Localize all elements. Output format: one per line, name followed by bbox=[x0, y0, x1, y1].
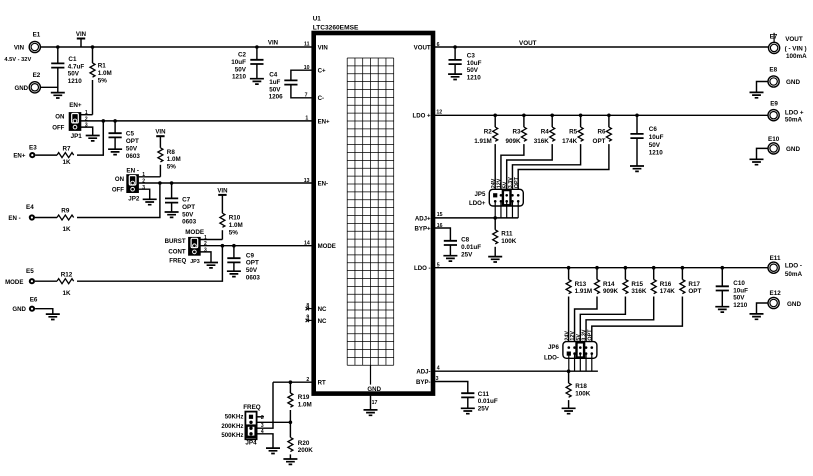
svg-text:GND: GND bbox=[787, 301, 801, 308]
ground JP2 bbox=[143, 199, 157, 204]
svg-text:MODE: MODE bbox=[5, 279, 23, 286]
svg-text:JP5: JP5 bbox=[475, 191, 486, 198]
terminal E1 VIN input bbox=[29, 41, 40, 52]
svg-text:OPT: OPT bbox=[688, 288, 701, 295]
svg-text:JP4: JP4 bbox=[245, 440, 257, 447]
svg-text:0603: 0603 bbox=[126, 153, 141, 160]
svg-text:50mA: 50mA bbox=[785, 117, 803, 124]
wire RT to JP4 pin3 bbox=[257, 382, 273, 428]
svg-text:R13: R13 bbox=[575, 281, 587, 288]
svg-text:10uF: 10uF bbox=[467, 60, 482, 67]
jumper JP2 EN- bbox=[126, 174, 139, 193]
svg-text:EN -: EN - bbox=[8, 215, 20, 222]
svg-text:0.01uF: 0.01uF bbox=[461, 244, 481, 251]
svg-text:OPT: OPT bbox=[514, 176, 520, 188]
svg-text:10uF: 10uF bbox=[733, 287, 748, 294]
ground E10 bbox=[750, 159, 764, 164]
terminal E5 MODE bbox=[29, 278, 35, 284]
wire LDO+ net bbox=[433, 114, 768, 116]
svg-text:500KHz: 500KHz bbox=[221, 432, 243, 439]
node LDO- junctions bbox=[567, 266, 571, 270]
resistor R15 316K bbox=[624, 268, 626, 280]
svg-text:C7: C7 bbox=[182, 197, 191, 204]
ground pin 17 of U1 bbox=[370, 395, 372, 410]
wire ADJ+ net bbox=[433, 217, 518, 219]
svg-text:1210: 1210 bbox=[733, 302, 748, 309]
svg-text:316K: 316K bbox=[631, 288, 647, 295]
svg-text:R3: R3 bbox=[512, 128, 521, 135]
svg-text:LDO-: LDO- bbox=[544, 354, 559, 361]
node VIN junctions bbox=[56, 45, 60, 49]
svg-text:1210: 1210 bbox=[232, 74, 247, 81]
node ADJ+ junction bbox=[493, 216, 497, 220]
svg-text:BURST: BURST bbox=[165, 238, 186, 245]
svg-text:E1: E1 bbox=[33, 32, 41, 39]
svg-text:R8: R8 bbox=[167, 149, 176, 156]
terminal E8 GND bbox=[768, 76, 779, 87]
ground E6 bbox=[46, 314, 60, 319]
svg-text:EN+: EN+ bbox=[69, 102, 82, 109]
svg-text:E6: E6 bbox=[30, 296, 38, 303]
svg-text:R10: R10 bbox=[229, 215, 241, 222]
svg-text:VOUT: VOUT bbox=[519, 40, 537, 47]
svg-text:4.7uF: 4.7uF bbox=[68, 63, 85, 70]
wire RT net bbox=[273, 381, 313, 383]
wire E8 to ground bbox=[757, 82, 769, 93]
svg-text:C10: C10 bbox=[733, 280, 745, 287]
svg-text:100mA: 100mA bbox=[786, 53, 807, 60]
capacitor C2 10uF bbox=[256, 47, 258, 60]
wire JP1 pin1 to R1 bbox=[81, 114, 93, 116]
svg-text:FREQ: FREQ bbox=[169, 257, 186, 264]
node ADJ- junction bbox=[567, 369, 571, 373]
svg-text:R14: R14 bbox=[603, 281, 615, 288]
svg-text:50V: 50V bbox=[246, 267, 258, 274]
svg-text:1210: 1210 bbox=[467, 75, 482, 82]
svg-text:C2: C2 bbox=[238, 52, 247, 59]
svg-text:LDO -: LDO - bbox=[785, 263, 802, 270]
capacitor C4 1uF flying bbox=[291, 70, 313, 80]
IC U1 LTC3260EMSE body bbox=[314, 33, 433, 394]
svg-text:5%: 5% bbox=[229, 229, 239, 236]
capacitor C1 4.7uF bbox=[57, 47, 59, 63]
svg-text:1210: 1210 bbox=[68, 78, 83, 85]
svg-text:CONT: CONT bbox=[168, 248, 186, 255]
svg-text:C1: C1 bbox=[68, 56, 77, 63]
svg-text:BYP+: BYP+ bbox=[415, 225, 432, 232]
terminal E3 EN+ bbox=[29, 152, 35, 158]
svg-text:200KHz: 200KHz bbox=[221, 423, 243, 430]
wire E10 to ground bbox=[757, 148, 769, 159]
wire E12 to ground bbox=[757, 303, 769, 314]
capacitor C3 10uF bbox=[454, 47, 456, 60]
svg-text:100K: 100K bbox=[575, 390, 591, 397]
ground below C5 bbox=[108, 149, 122, 154]
node EN+ junctions bbox=[102, 119, 106, 123]
wire JP3 pin1 to R10 bbox=[200, 239, 222, 241]
ground below R20 bbox=[283, 459, 297, 464]
svg-text:R2: R2 bbox=[484, 128, 493, 135]
svg-text:VOUT: VOUT bbox=[785, 36, 803, 43]
ground E8 bbox=[750, 92, 764, 97]
resistor R19 1.0M bbox=[289, 382, 291, 393]
node RT junction bbox=[289, 380, 293, 384]
svg-text:C4: C4 bbox=[269, 72, 278, 79]
resistor R10 1.0M bbox=[220, 213, 225, 227]
svg-text:10uF: 10uF bbox=[231, 59, 246, 66]
node LDO+ junctions bbox=[493, 114, 497, 118]
svg-text:50V: 50V bbox=[235, 66, 247, 73]
svg-text:OPT: OPT bbox=[126, 138, 139, 145]
svg-text:VIN: VIN bbox=[268, 40, 278, 47]
svg-text:E12: E12 bbox=[770, 290, 782, 297]
wire JP5 bottom pins to ADJ+ bus bbox=[494, 202, 496, 218]
ground below C8 bbox=[443, 256, 457, 261]
svg-text:R16: R16 bbox=[660, 281, 672, 288]
wire JP4 pin2 to R19-R20 bbox=[257, 421, 291, 423]
node VOUT junction bbox=[453, 45, 457, 49]
svg-text:1K: 1K bbox=[62, 159, 71, 166]
resistor R16 174K bbox=[653, 268, 655, 280]
svg-text:1.0M: 1.0M bbox=[167, 156, 181, 163]
wire JP2 pin1 to R8 bbox=[139, 176, 161, 178]
capacitor C5 OPT bbox=[114, 121, 116, 133]
svg-text:0603: 0603 bbox=[246, 275, 261, 282]
svg-text:174K: 174K bbox=[562, 138, 578, 145]
svg-text:R12: R12 bbox=[61, 271, 73, 278]
svg-text:LDO -: LDO - bbox=[414, 265, 431, 272]
svg-text:GND: GND bbox=[786, 146, 800, 153]
svg-text:R11: R11 bbox=[501, 231, 513, 238]
svg-text:1K: 1K bbox=[62, 226, 71, 233]
svg-text:1uF: 1uF bbox=[269, 79, 280, 86]
ground below R18 bbox=[562, 408, 576, 413]
resistor R18 100K bbox=[568, 371, 570, 383]
jumper JP3 MODE bbox=[188, 237, 201, 256]
svg-text:1206: 1206 bbox=[269, 94, 284, 101]
wire JP3 pin3 to ground bbox=[200, 252, 211, 263]
wire JP4 pin4 to ground bbox=[257, 434, 273, 448]
wire E6 to ground bbox=[35, 309, 53, 314]
node MODE junctions bbox=[221, 244, 225, 248]
svg-text:VOUT: VOUT bbox=[414, 44, 431, 51]
svg-text:C-: C- bbox=[318, 95, 324, 102]
ground E12 bbox=[750, 314, 764, 319]
ground below C9 bbox=[227, 271, 241, 276]
wire JP1 pin3 to ground bbox=[81, 127, 93, 135]
svg-text:EN+: EN+ bbox=[13, 153, 25, 160]
ground JP4 bbox=[266, 448, 280, 453]
svg-text:100K: 100K bbox=[501, 238, 517, 245]
ground below C3 bbox=[448, 74, 462, 79]
svg-text:E8: E8 bbox=[769, 67, 777, 74]
svg-text:OPT: OPT bbox=[587, 329, 593, 341]
svg-text:R19: R19 bbox=[298, 394, 310, 401]
svg-text:LTC3260EMSE: LTC3260EMSE bbox=[313, 25, 359, 32]
svg-text:ON: ON bbox=[55, 114, 64, 121]
svg-text:ON: ON bbox=[115, 176, 124, 183]
node EN- junctions bbox=[158, 181, 162, 185]
resistor R12 1K bbox=[35, 280, 57, 282]
resistor R20 200K bbox=[288, 437, 293, 451]
svg-text:NC: NC bbox=[318, 306, 327, 313]
svg-text:R15: R15 bbox=[631, 281, 643, 288]
svg-text:C+: C+ bbox=[318, 68, 326, 75]
capacitor C6 10uF bbox=[636, 115, 638, 134]
svg-text:17: 17 bbox=[372, 400, 378, 406]
svg-text:JP2: JP2 bbox=[128, 196, 140, 203]
svg-text:OPT: OPT bbox=[182, 204, 195, 211]
wire EN+ net bbox=[81, 120, 313, 122]
ground below C7 bbox=[165, 212, 179, 217]
svg-text:FREQ: FREQ bbox=[243, 404, 261, 411]
svg-text:MODE: MODE bbox=[185, 229, 204, 236]
jumper JP4 FREQ bbox=[245, 412, 256, 440]
svg-text:909K: 909K bbox=[505, 138, 521, 145]
svg-text:VIN: VIN bbox=[14, 44, 24, 51]
svg-text:E4: E4 bbox=[26, 204, 34, 211]
node R19-R20 junction bbox=[289, 421, 293, 425]
svg-text:ADJ+: ADJ+ bbox=[415, 215, 431, 222]
svg-text:1210: 1210 bbox=[649, 150, 664, 157]
svg-text:25V: 25V bbox=[478, 406, 490, 413]
ground JP3 bbox=[204, 263, 218, 268]
svg-text:50V: 50V bbox=[68, 71, 80, 78]
svg-text:50V: 50V bbox=[467, 67, 479, 74]
svg-text:50V: 50V bbox=[182, 211, 194, 218]
wire EN- net bbox=[139, 182, 313, 184]
svg-text:EN -: EN - bbox=[126, 167, 139, 174]
svg-text:R1: R1 bbox=[98, 62, 107, 69]
resistor R5 174K bbox=[580, 115, 582, 127]
svg-text:1.91M: 1.91M bbox=[474, 138, 492, 145]
svg-text:R7: R7 bbox=[62, 145, 71, 152]
resistor R13 1.91M bbox=[568, 268, 570, 280]
svg-text:VIN: VIN bbox=[217, 187, 227, 194]
ground below C10 bbox=[715, 307, 729, 312]
wire LDO- net bbox=[433, 267, 768, 269]
capacitor C10 10uF bbox=[721, 268, 723, 287]
svg-text:10uF: 10uF bbox=[649, 134, 664, 141]
resistor R7 1K bbox=[35, 154, 57, 156]
svg-text:LDO +: LDO + bbox=[785, 109, 804, 116]
resistor R14 909K bbox=[596, 268, 598, 280]
resistor R2 1.91M bbox=[494, 115, 496, 127]
svg-text:5%: 5% bbox=[167, 164, 177, 171]
svg-text:C9: C9 bbox=[246, 252, 255, 259]
svg-text:OFF: OFF bbox=[112, 186, 124, 193]
svg-text:200K: 200K bbox=[298, 447, 314, 454]
capacitor C9 OPT bbox=[233, 246, 235, 259]
wire JP6 bottom pins to ADJ- bus bbox=[568, 354, 570, 371]
wire JP2 pin3 to ground bbox=[139, 189, 150, 199]
svg-text:1.0M: 1.0M bbox=[98, 70, 112, 77]
svg-text:0.01uF: 0.01uF bbox=[478, 398, 498, 405]
wire JP4 pin1 stub bbox=[257, 416, 264, 418]
svg-text:C3: C3 bbox=[467, 52, 476, 59]
jumper JP1 EN+ bbox=[69, 112, 82, 131]
svg-text:R9: R9 bbox=[61, 208, 70, 215]
svg-text:RT: RT bbox=[318, 380, 326, 387]
resistor R3 909K bbox=[523, 115, 525, 127]
capacitor C7 OPT bbox=[171, 183, 173, 198]
jumper JP5 LDO+ select bbox=[489, 189, 523, 206]
svg-text:JP1: JP1 bbox=[71, 133, 83, 140]
svg-text:JP6: JP6 bbox=[548, 344, 559, 351]
svg-text:174K: 174K bbox=[660, 288, 676, 295]
svg-text:50KHz: 50KHz bbox=[225, 413, 244, 420]
svg-text:E7: E7 bbox=[770, 33, 778, 40]
svg-text:5%: 5% bbox=[98, 77, 108, 84]
svg-text:EN+: EN+ bbox=[318, 118, 330, 125]
svg-text:50V: 50V bbox=[269, 86, 281, 93]
svg-text:LDO +: LDO + bbox=[412, 113, 431, 120]
svg-text:OPT: OPT bbox=[593, 138, 606, 145]
jumper JP6 LDO- select bbox=[563, 342, 597, 359]
ground JP1 bbox=[86, 136, 100, 141]
wire VIN net bbox=[40, 46, 313, 48]
svg-text:0603: 0603 bbox=[182, 219, 197, 226]
svg-text:GND: GND bbox=[14, 85, 28, 92]
svg-text:E10: E10 bbox=[768, 136, 780, 143]
resistor R4 316K bbox=[551, 115, 553, 127]
svg-text:ADJ-: ADJ- bbox=[416, 369, 430, 376]
wire VOUT net bbox=[433, 46, 769, 48]
ground below C11 bbox=[461, 408, 475, 413]
terminal E2 GND bbox=[29, 82, 40, 93]
svg-text:VIN: VIN bbox=[76, 31, 86, 38]
svg-text:C5: C5 bbox=[126, 131, 135, 138]
svg-text:R6: R6 bbox=[597, 128, 606, 135]
svg-text:JP3: JP3 bbox=[190, 259, 200, 265]
svg-text:LDO+: LDO+ bbox=[469, 200, 486, 207]
svg-text:4.5V - 32V: 4.5V - 32V bbox=[4, 57, 31, 63]
ground below R11 bbox=[488, 257, 502, 262]
terminal E7 VOUT bbox=[773, 33, 775, 43]
svg-text:OFF: OFF bbox=[52, 124, 64, 131]
wire E2 to C1 bbox=[40, 86, 58, 88]
terminal E12 GND bbox=[768, 297, 779, 308]
svg-text:R20: R20 bbox=[298, 440, 310, 447]
resistor R1 1.0M bbox=[92, 47, 94, 63]
resistor R17 OPT bbox=[681, 268, 683, 280]
terminal E10 GND bbox=[768, 143, 779, 154]
capacitor C8 0.01uF BYP+ bbox=[433, 228, 450, 241]
ground below C2 bbox=[250, 79, 264, 84]
svg-text:25V: 25V bbox=[461, 251, 473, 258]
svg-text:50V: 50V bbox=[649, 142, 661, 149]
svg-text:C8: C8 bbox=[461, 237, 470, 244]
svg-text:NC: NC bbox=[318, 318, 327, 325]
terminal E9 LDO+ bbox=[768, 110, 779, 121]
svg-text:OPT: OPT bbox=[246, 260, 259, 267]
power VIN symbol for R10 bbox=[218, 194, 226, 196]
power VIN symbol bbox=[77, 38, 85, 40]
terminal E4 EN- bbox=[29, 214, 35, 220]
svg-text:50V: 50V bbox=[126, 146, 138, 153]
svg-text:909K: 909K bbox=[603, 288, 619, 295]
terminal E6 GND bbox=[29, 306, 35, 312]
ground below C6 bbox=[630, 166, 644, 171]
svg-text:BYP-: BYP- bbox=[416, 379, 431, 386]
svg-text:R18: R18 bbox=[575, 383, 587, 390]
svg-text:R5: R5 bbox=[569, 128, 578, 135]
svg-text:50V: 50V bbox=[733, 295, 745, 302]
svg-text:C6: C6 bbox=[649, 126, 658, 133]
svg-text:E9: E9 bbox=[770, 101, 778, 108]
svg-text:1.0M: 1.0M bbox=[298, 401, 312, 408]
svg-text:C11: C11 bbox=[478, 391, 490, 398]
terminal E11 LDO- bbox=[768, 262, 779, 273]
svg-text:1.91M: 1.91M bbox=[575, 288, 593, 295]
svg-text:U1: U1 bbox=[313, 16, 322, 23]
svg-text:EN-: EN- bbox=[318, 180, 329, 187]
capacitor C11 0.01uF BYP- bbox=[433, 382, 468, 394]
svg-text:1K: 1K bbox=[62, 290, 71, 297]
svg-text:( - VIN ): ( - VIN ) bbox=[785, 46, 807, 53]
svg-text:E3: E3 bbox=[29, 145, 37, 152]
svg-text:E5: E5 bbox=[26, 268, 34, 275]
svg-text:VIN: VIN bbox=[318, 44, 328, 51]
svg-text:E2: E2 bbox=[33, 72, 41, 79]
resistor R11 100K bbox=[494, 218, 496, 230]
U1 NC pin stubs 8 and 9 bbox=[307, 308, 312, 310]
svg-text:50mA: 50mA bbox=[785, 271, 803, 278]
svg-text:R17: R17 bbox=[688, 281, 700, 288]
svg-text:VIN: VIN bbox=[155, 129, 165, 136]
power VIN symbol for R8 bbox=[156, 135, 164, 137]
svg-text:GND: GND bbox=[786, 79, 800, 86]
svg-text:1.0M: 1.0M bbox=[229, 222, 243, 229]
ground below C1 bbox=[51, 93, 65, 98]
wire ADJ- net bbox=[433, 370, 598, 372]
svg-text:R4: R4 bbox=[541, 128, 550, 135]
svg-text:MODE: MODE bbox=[318, 243, 336, 250]
svg-text:E11: E11 bbox=[770, 255, 781, 262]
svg-text:GND: GND bbox=[12, 306, 26, 313]
svg-text:2: 2 bbox=[261, 415, 264, 421]
svg-text:316K: 316K bbox=[534, 138, 550, 145]
wire MODE net bbox=[200, 245, 313, 247]
resistor R8 1.0M bbox=[158, 148, 163, 162]
svg-text:GND: GND bbox=[367, 386, 381, 393]
resistor R6 OPT bbox=[608, 115, 610, 127]
resistor R9 1K bbox=[35, 217, 57, 219]
